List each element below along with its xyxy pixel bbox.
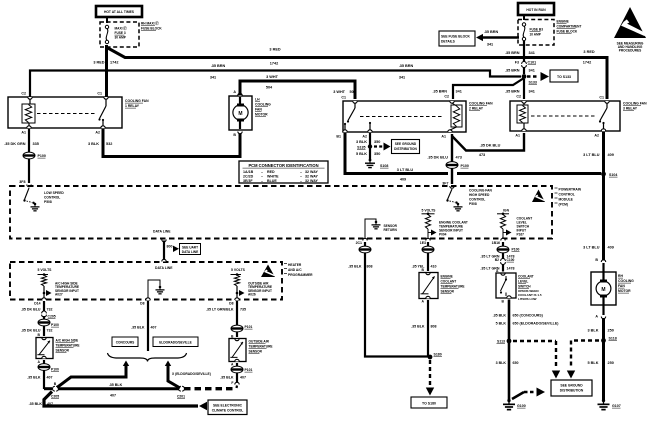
relay2 switch xyxy=(354,103,356,108)
terminal A1 xyxy=(27,126,31,128)
engine compartment fuse block dashed box xyxy=(518,20,554,46)
svg-text:C201: C201 xyxy=(177,394,185,398)
svg-text:S118: S118 xyxy=(609,337,617,341)
arrow to climate control xyxy=(199,402,207,411)
svg-text:3 BLK: 3 BLK xyxy=(588,329,599,333)
wire dashed S113 to ground distribution xyxy=(513,340,556,342)
svg-text:S133: S133 xyxy=(529,81,537,85)
svg-text:808: 808 xyxy=(431,325,437,329)
svg-text:32 WAY: 32 WAY xyxy=(305,179,318,183)
svg-text:–: – xyxy=(300,170,302,174)
relay U3 COOLING FAN 3 RELAY box xyxy=(510,101,620,131)
terminal D8 data xyxy=(146,298,150,300)
svg-text:3 RED: 3 RED xyxy=(269,48,280,52)
svg-text:1A/1B: 1A/1B xyxy=(243,170,254,174)
svg-text:473: 473 xyxy=(479,153,485,157)
svg-text:504: 504 xyxy=(350,90,357,94)
svg-text:A2: A2 xyxy=(594,134,599,138)
terminal B outside air xyxy=(235,339,239,341)
svg-text:410: 410 xyxy=(431,265,437,269)
wire .35 BLK 407 D8 to brace xyxy=(147,301,149,351)
svg-text:5 VOLTS: 5 VOLTS xyxy=(231,268,246,272)
svg-text:MAXI Ⓕ: MAXI Ⓕ xyxy=(115,26,128,31)
wire to P100 lower xyxy=(43,360,45,364)
reference box SEE GROUND DISTRIBUTION 2 xyxy=(551,380,592,396)
terminal data line heater xyxy=(162,259,166,261)
svg-text:409: 409 xyxy=(400,178,406,182)
junction S135 xyxy=(368,144,372,148)
ground low speed control internal xyxy=(34,203,37,206)
terminal B coolant switch xyxy=(507,296,511,298)
connector P100 high speed xyxy=(446,162,458,169)
terminal A2 xyxy=(101,126,105,128)
svg-text:5 BLK: 5 BLK xyxy=(356,152,367,156)
svg-text:ENGINE: ENGINE xyxy=(441,275,453,279)
wire 3 LT BLU 409 S104 to RH motor B xyxy=(602,176,605,260)
junction S180 xyxy=(428,355,433,360)
reference box SEE FUSE BLOCK DETAILS xyxy=(439,31,475,46)
ESD warning symbol xyxy=(614,7,646,38)
wire 3 BLK 250 motor A to S118 xyxy=(602,318,605,340)
table PCM CONNECTOR IDENTIFICATION xyxy=(239,161,328,183)
svg-text:X (ELDORADO/SEVILLE): X (ELDORADO/SEVILLE) xyxy=(172,372,211,376)
svg-text:CONCOURS: CONCOURS xyxy=(116,341,135,345)
terminal C2 relay3 xyxy=(522,101,526,103)
wire .35 BRN 341 S133 to relay3 C2 xyxy=(523,79,525,99)
svg-text:C1: C1 xyxy=(341,96,346,100)
wire dashed S118 to ground distribution xyxy=(571,339,599,341)
terminal B RH motor xyxy=(601,260,605,262)
terminal A1 relay2 xyxy=(448,130,452,132)
svg-text:341: 341 xyxy=(529,90,535,94)
svg-text:A026: A026 xyxy=(248,293,256,297)
svg-text:FAN: FAN xyxy=(255,108,262,112)
svg-text:2 RELAY: 2 RELAY xyxy=(469,107,484,111)
svg-text:650: 650 xyxy=(513,361,519,365)
svg-text:473: 473 xyxy=(456,156,462,160)
svg-text:LITERS LOW: LITERS LOW xyxy=(518,297,537,301)
wire 3 RED bus xyxy=(106,47,607,99)
wire .35 DK GRN 335 relay1 A1 down xyxy=(28,129,30,183)
svg-text:P101: P101 xyxy=(245,368,253,372)
svg-text:250: 250 xyxy=(608,329,614,333)
svg-text:409: 409 xyxy=(608,153,614,157)
svg-text:A1: A1 xyxy=(21,131,26,135)
wire .35 BLK 407 C205 to C201 xyxy=(58,387,179,390)
svg-text:C205: C205 xyxy=(51,395,59,399)
svg-text:TEMPERATURE: TEMPERATURE xyxy=(441,285,465,289)
svg-text:SENSOR: SENSOR xyxy=(441,290,455,294)
wire to P101 lower xyxy=(236,363,238,366)
wire .35 DK BLU 732 to sensor B xyxy=(43,326,45,336)
fuse FUSE B3 10 AMP xyxy=(522,23,525,26)
relay1 dashed link xyxy=(37,113,97,115)
svg-text:B: B xyxy=(233,133,236,137)
svg-text:532: 532 xyxy=(106,142,112,146)
terminal A outside air xyxy=(235,359,239,361)
svg-text:OUTSIDE AIR: OUTSIDE AIR xyxy=(249,340,270,344)
svg-text:.35 DK BLU: .35 DK BLU xyxy=(427,156,448,160)
svg-text:.35 BRN: .35 BRN xyxy=(399,64,414,68)
PCM powertrain control module dashed box xyxy=(10,186,552,239)
svg-text:732: 732 xyxy=(47,329,53,333)
svg-text:.35 BLK: .35 BLK xyxy=(348,265,362,269)
svg-text:341: 341 xyxy=(456,90,462,94)
RH maxi fuse block dashed box xyxy=(100,22,139,47)
relay U2 COOLING FAN 2 RELAY box xyxy=(343,101,466,132)
svg-text:.35 BLK: .35 BLK xyxy=(493,314,507,318)
svg-text:D8: D8 xyxy=(140,302,144,306)
wire .35 DK BLU 732 D14 to C205 xyxy=(43,301,45,312)
svg-text:M: M xyxy=(238,111,242,117)
svg-text:407: 407 xyxy=(110,394,116,398)
relay3 switch xyxy=(606,103,608,108)
svg-text:.35 BRN: .35 BRN xyxy=(505,51,520,55)
svg-text:PCM CONNECTOR IDENTIFICATION: PCM CONNECTOR IDENTIFICATION xyxy=(248,163,318,168)
svg-text:1E3: 1E3 xyxy=(420,241,426,245)
svg-text:.35 BRN: .35 BRN xyxy=(505,69,520,73)
svg-text:C2: C2 xyxy=(516,95,521,99)
svg-text:C1: C1 xyxy=(599,96,604,100)
wire 3 BLK 650 S113 to G100 xyxy=(508,341,511,400)
svg-text:COOLING FAN: COOLING FAN xyxy=(623,102,647,106)
svg-text:407: 407 xyxy=(47,376,53,380)
terminal B ac sensor xyxy=(42,338,46,340)
svg-text:.35 DK BLU: .35 DK BLU xyxy=(480,144,501,148)
svg-text:.35 BLK: .35 BLK xyxy=(411,325,425,329)
wire arrow to see fuse block details xyxy=(481,36,519,38)
terminal data line PCM xyxy=(162,240,166,242)
svg-text:DISTRIBUTION: DISTRIBUTION xyxy=(560,389,584,393)
low speed control switch in PCM xyxy=(25,188,30,200)
relay2 coil xyxy=(451,105,462,127)
svg-text:C101: C101 xyxy=(528,61,537,65)
svg-text:P100: P100 xyxy=(461,164,469,168)
wire fuse feed xyxy=(106,18,108,24)
connector P100 ac sensor top xyxy=(38,319,50,326)
svg-text:FAN: FAN xyxy=(618,284,625,288)
svg-text:RH MAXI Ⓕ: RH MAXI Ⓕ xyxy=(141,21,159,26)
svg-text:FUSE B3: FUSE B3 xyxy=(530,28,544,32)
label POWERTRAIN CONTROL MODULE PCM xyxy=(555,187,558,189)
svg-text:DETAILS: DETAILS xyxy=(441,40,456,44)
svg-text:AND A/C: AND A/C xyxy=(288,268,302,272)
relay3 coil xyxy=(517,105,528,123)
connector P100 ac sensor bottom xyxy=(38,364,50,371)
svg-text:LOW SPEED: LOW SPEED xyxy=(44,191,64,195)
wire .35 BLK 407 to node B C205 xyxy=(43,370,45,389)
wire 3 BLK 532 relay1 A2 to LH motor B xyxy=(103,129,240,157)
wire .35 YEL 410 1E3 to ECT sensor xyxy=(427,242,429,246)
wire 800 data line xyxy=(163,241,165,262)
wire 3 LT BLU 409 relay2 B1 to S104 xyxy=(345,133,448,174)
brace model split xyxy=(108,353,187,362)
relay2 dashed link xyxy=(360,116,444,118)
wire 3 WHT 504 motor A to relay2 C1 xyxy=(240,81,355,99)
svg-text:MOTOR: MOTOR xyxy=(255,113,268,117)
svg-text:732: 732 xyxy=(47,308,53,312)
svg-text:BLUE: BLUE xyxy=(267,179,277,183)
wire .35 LT GRN 1478 to switch A xyxy=(502,264,504,272)
svg-text:SENSOR: SENSOR xyxy=(249,350,263,354)
svg-text:WHITE: WHITE xyxy=(267,174,279,178)
sensor ENGINE COOLANT TEMPERATURE SENSOR xyxy=(419,273,438,299)
reference box SEE GROUND DISTRIBUTION xyxy=(392,140,420,154)
svg-text:3 LT BLU: 3 LT BLU xyxy=(397,168,414,172)
relay1 switch xyxy=(105,99,107,106)
label HEATER AND A/C PROGRAMMER xyxy=(284,263,287,265)
svg-text:.35 DK GRN: .35 DK GRN xyxy=(4,142,26,146)
svg-text:S135: S135 xyxy=(357,145,365,149)
svg-text:5 VOLTS: 5 VOLTS xyxy=(38,268,53,272)
wire dashed arrow to S133 reference xyxy=(527,75,539,77)
svg-text:341: 341 xyxy=(529,51,535,55)
svg-text:5 VOLTS: 5 VOLTS xyxy=(422,209,437,213)
terminal 3F7 xyxy=(450,186,454,188)
terminal C1 xyxy=(104,97,108,99)
svg-text:TO S133: TO S133 xyxy=(557,75,571,79)
svg-text:PROGRAMMER: PROGRAMMER xyxy=(288,273,313,277)
reference box TO S180 xyxy=(411,397,447,408)
ground G100 xyxy=(507,399,510,402)
svg-text:TEMPERATURE: TEMPERATURE xyxy=(249,345,273,349)
terminal A ECT xyxy=(426,296,430,298)
connector C205 inline xyxy=(42,311,47,313)
svg-text:FUSE BLOCK: FUSE BLOCK xyxy=(141,27,162,31)
svg-text:250: 250 xyxy=(608,361,614,365)
svg-text:CONTROL: CONTROL xyxy=(44,196,60,200)
svg-text:A1: A1 xyxy=(441,135,446,139)
wire .35 DK BLU 473 relay2 A1 to PCM 3F7 xyxy=(451,134,453,184)
svg-text:.35 BRN: .35 BRN xyxy=(432,90,447,94)
svg-text:P100: P100 xyxy=(51,323,59,327)
svg-text:P508: P508 xyxy=(469,202,477,206)
svg-text:COOLANT: COOLANT xyxy=(441,280,457,284)
junction S118 xyxy=(601,338,606,343)
svg-text:504: 504 xyxy=(266,86,273,90)
terminal A motor xyxy=(238,93,242,95)
terminal C1 relay2 xyxy=(353,101,357,103)
svg-text:TEMPERATURE: TEMPERATURE xyxy=(56,344,80,348)
junction S104 xyxy=(601,172,606,177)
wire 3 BLK 350 relay2 A2 to S135 xyxy=(369,133,371,159)
svg-text:.35 BRN: .35 BRN xyxy=(484,30,499,34)
ESD warning symbol in heater box xyxy=(261,265,275,278)
svg-text:G107: G107 xyxy=(612,404,621,408)
svg-text:COOLING FAN: COOLING FAN xyxy=(469,189,493,193)
fuse MAXI FUSE 3 30 AMP xyxy=(105,25,108,28)
svg-text:800: 800 xyxy=(167,245,173,249)
junction S133 xyxy=(522,74,527,79)
svg-text:407: 407 xyxy=(47,402,53,406)
terminal 3F8 xyxy=(27,185,31,187)
reference box SEE ELECTRONIC CLIMATE CONTROL xyxy=(208,400,247,415)
wire .35 BLK 808 2C1 to S180 xyxy=(364,242,366,246)
wire eldorado branch xyxy=(165,361,171,367)
svg-text:LEVEL: LEVEL xyxy=(518,280,528,284)
svg-text:D14: D14 xyxy=(34,302,40,306)
svg-text:SWITCH: SWITCH xyxy=(518,285,531,289)
svg-text:C100: C100 xyxy=(507,258,515,262)
svg-text:1742: 1742 xyxy=(583,61,591,65)
terminal 1B16 xyxy=(501,238,505,240)
svg-text:PROCEDURES: PROCEDURES xyxy=(619,49,642,53)
terminal D8 outside air xyxy=(235,298,239,300)
svg-text:735: 735 xyxy=(240,308,246,312)
svg-text:1742: 1742 xyxy=(270,62,278,66)
svg-text:SENSOR: SENSOR xyxy=(56,349,70,353)
svg-text:RH: RH xyxy=(618,274,623,278)
svg-text:3 RED: 3 RED xyxy=(93,61,104,65)
svg-text:.35 BLK: .35 BLK xyxy=(27,376,41,380)
svg-text:D8: D8 xyxy=(229,302,233,306)
svg-text:F: F xyxy=(231,381,233,385)
wire to sensor B xyxy=(236,332,238,337)
terminal C2 relay2 xyxy=(450,101,454,103)
svg-text:P100: P100 xyxy=(38,154,46,158)
svg-text:SEE GROUND: SEE GROUND xyxy=(560,384,583,388)
wire to P100 xyxy=(43,316,45,319)
wire .35 BRN 341 S133 to relay2 C2 xyxy=(453,78,524,99)
svg-text:30 AMP: 30 AMP xyxy=(115,36,127,40)
svg-text:IGN: IGN xyxy=(503,209,510,213)
svg-text:A2: A2 xyxy=(95,131,100,135)
svg-text:808: 808 xyxy=(367,265,373,269)
svg-text:MOTOR: MOTOR xyxy=(618,289,631,293)
ground sensor return internal xyxy=(375,221,378,224)
svg-text:P508: P508 xyxy=(44,200,52,204)
svg-text:3 RED: 3 RED xyxy=(583,50,594,54)
relay U1 COOLING FAN 1 RELAY box xyxy=(8,97,122,128)
svg-text:–: – xyxy=(261,170,263,174)
svg-text:3 WHT: 3 WHT xyxy=(333,90,345,94)
svg-text:–: – xyxy=(300,174,302,178)
svg-text:.35 DK BLU: .35 DK BLU xyxy=(21,308,41,312)
svg-text:B: B xyxy=(595,258,598,262)
svg-text:650 (ELDORADO/SEVILLE): 650 (ELDORADO/SEVILLE) xyxy=(513,322,560,326)
svg-text:SEE UART: SEE UART xyxy=(182,245,198,249)
svg-text:.35 BRN: .35 BRN xyxy=(505,90,520,94)
ground G107 xyxy=(602,399,605,402)
reference box TO S133 xyxy=(550,70,578,82)
svg-text:5 BLK: 5 BLK xyxy=(588,361,599,365)
svg-text:SEE ELECTRONIC: SEE ELECTRONIC xyxy=(213,403,243,407)
svg-text:COOLING FAN: COOLING FAN xyxy=(469,102,493,106)
svg-text:.35 BLK: .35 BLK xyxy=(131,326,145,330)
wire fuse feed xyxy=(523,15,525,20)
junction S113 xyxy=(507,339,512,344)
svg-text:341: 341 xyxy=(487,43,493,47)
svg-text:DATA LINE: DATA LINE xyxy=(155,266,173,270)
terminal B1 relay2 xyxy=(343,130,347,132)
svg-text:A/C HIGH SIDE: A/C HIGH SIDE xyxy=(56,339,79,343)
heater and AC programmer dashed box xyxy=(10,262,282,300)
svg-text:32 WAY: 32 WAY xyxy=(305,170,318,174)
svg-text:.35 BRN: .35 BRN xyxy=(211,64,226,68)
svg-text:C1: C1 xyxy=(97,92,102,96)
connector B2 C100 xyxy=(501,259,506,261)
wire dashed arrow to ground distribution xyxy=(374,145,383,147)
wire .35 BLK 808 ECT A to S180 xyxy=(427,300,429,356)
svg-text:HOT AT ALL TIMES: HOT AT ALL TIMES xyxy=(104,10,135,14)
svg-text:5 BLK: 5 BLK xyxy=(496,322,507,326)
svg-text:P100: P100 xyxy=(512,248,520,252)
svg-text:650 (CONCOURS): 650 (CONCOURS) xyxy=(513,314,544,318)
svg-text:FUSE BLOCK: FUSE BLOCK xyxy=(557,30,578,34)
svg-text:2C1: 2C1 xyxy=(356,241,362,245)
svg-text:ELDORADO/SEVILLE: ELDORADO/SEVILLE xyxy=(159,341,191,345)
node B splice C205 xyxy=(44,387,52,390)
svg-text:1742: 1742 xyxy=(110,61,118,65)
svg-text:B2: B2 xyxy=(495,258,499,262)
terminal A coolant switch xyxy=(501,273,505,275)
connector C201 xyxy=(178,386,180,391)
svg-text:3E/3F: 3E/3F xyxy=(243,179,253,183)
wire .35 BLK 407 to F xyxy=(236,373,238,383)
svg-text:COOLING FAN: COOLING FAN xyxy=(125,99,149,103)
svg-text:3 LT BLU: 3 LT BLU xyxy=(583,246,600,250)
svg-text:S108: S108 xyxy=(380,164,388,168)
sensor OUTSIDE AIR TEMPERATURE SENSOR xyxy=(229,339,246,362)
wire dashed to S180 reference xyxy=(429,360,431,386)
connector P101 outside air bottom xyxy=(231,366,243,373)
svg-text:HIGH SPEED: HIGH SPEED xyxy=(469,193,490,197)
svg-text:C2: C2 xyxy=(444,95,449,99)
high speed control switch in PCM xyxy=(448,189,453,200)
terminal 1E3 xyxy=(426,238,430,240)
svg-text:ENGINE: ENGINE xyxy=(557,20,569,24)
connector P101 outside air top xyxy=(231,325,243,332)
label box CONCOURS xyxy=(112,337,138,347)
resistor outside air pullup xyxy=(234,275,239,286)
label box ELDORADO/SEVILLE xyxy=(153,337,198,347)
power label HOT AT ALL TIMES xyxy=(96,6,142,17)
connector P100 xyxy=(23,152,35,159)
svg-text:P101: P101 xyxy=(245,325,253,329)
wire .35 DK BLU 473 branch to relay3 A1 xyxy=(452,133,524,151)
svg-text:C205: C205 xyxy=(48,315,56,319)
svg-text:335: 335 xyxy=(33,142,39,146)
svg-text:RETURN: RETURN xyxy=(384,228,398,232)
svg-text:3F8: 3F8 xyxy=(19,180,25,184)
svg-text:P167: P167 xyxy=(517,233,525,237)
svg-text:1478: 1478 xyxy=(507,266,515,270)
power label HOT IN RUN xyxy=(518,3,554,15)
motor M2 RH COOLING FAN MOTOR xyxy=(591,272,616,305)
wire .35 BLK 407 to climate control xyxy=(44,392,198,407)
svg-text:POWERTRAIN: POWERTRAIN xyxy=(559,188,582,192)
svg-text:A2: A2 xyxy=(362,135,367,139)
svg-text:G100: G100 xyxy=(517,404,526,408)
svg-text:3F7: 3F7 xyxy=(442,182,448,186)
ESD warning symbol in PCM xyxy=(532,190,545,203)
svg-text:C2: C2 xyxy=(21,92,26,96)
svg-text:3 RELAY: 3 RELAY xyxy=(623,107,638,111)
svg-text:A1: A1 xyxy=(515,134,520,138)
terminal A ac sensor xyxy=(42,356,46,358)
svg-text:350: 350 xyxy=(374,140,380,144)
resistor AC high side pullup xyxy=(41,275,46,286)
svg-text:B1: B1 xyxy=(336,135,341,139)
svg-text:.35 DK BLU: .35 DK BLU xyxy=(21,329,41,333)
wire .35 BRN 341 bus xyxy=(30,71,521,100)
terminal B ECT xyxy=(426,273,430,275)
svg-text:2C/2D: 2C/2D xyxy=(243,174,254,178)
wire 3 RED 1742 fuse to relay1 C1 xyxy=(105,45,108,99)
svg-text:409: 409 xyxy=(608,246,614,250)
terminal B motor xyxy=(238,132,242,134)
svg-text:407: 407 xyxy=(151,326,157,330)
